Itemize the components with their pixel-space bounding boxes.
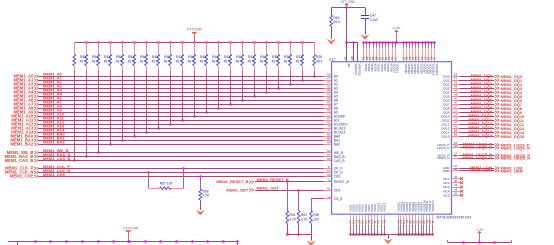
svg-text:49.9: 49.9 [248,59,255,63]
svg-text:CKE: CKE [334,175,342,179]
svg-text:UDM: UDM [442,169,449,173]
resistor R59 100 (CS_B pulldown) [310,199,320,235]
svg-text:4.7K: 4.7K [301,217,309,221]
wire net MEM1_UDM [452,167,523,174]
svg-text:MEM1_ODT: MEM1_ODT [257,185,280,190]
svg-text:MEM1_UDM: MEM1_UDM [470,168,492,173]
svg-text:E3: E3 [327,149,331,153]
svg-text:49.9: 49.9 [224,59,231,63]
svg-text:C3: C3 [454,108,458,112]
wire net MEM1_DQ14 [452,128,526,135]
wire net MEM1_A6 [14,96,332,103]
svg-text:VTT_GND: VTT_GND [341,0,357,4]
resistor R46 49.9 termination column [188,41,196,118]
resistor R37 49.9 termination column [296,41,304,82]
svg-text:49.9: 49.9 [140,59,147,63]
svg-text:E3: E3 [454,72,458,76]
wire net MEM1_DQ2 [452,80,523,87]
svg-text:BA2: BA2 [334,143,340,147]
svg-text:A7: A7 [454,120,458,124]
svg-text:0.1uF: 0.1uF [370,18,378,22]
svg-text:B7: B7 [454,154,458,158]
svg-text:MEM1_UDM: MEM1_UDM [501,169,523,174]
svg-text:VSS12: VSS12 [383,202,387,212]
wire net MEM1_DQ7 [452,100,523,107]
svg-text:49.9: 49.9 [284,59,291,63]
resistor R52 49.9 termination column [116,41,124,142]
wire net MEM1_DQ15 [452,132,526,139]
resistor R38 49.9 termination column [284,41,292,86]
ground (below R63) [327,39,336,45]
svg-text:B2: B2 [454,132,458,136]
wire NC pin 3 (no connect) [452,183,464,188]
wire NC pin 4 (no connect) [452,187,464,192]
wire net MEM1_A13 [11,124,331,131]
wire net MEM1_A10 [11,112,331,119]
svg-text:49.9: 49.9 [152,59,159,63]
wire +1.5V bus (bottom right) [448,240,512,244]
svg-text:U17: U17 [329,57,336,61]
svg-text:R59: R59 [313,213,319,217]
resistor R56 49.9 termination column [73,42,76,162]
wire net MEM1_A0 [14,72,332,79]
svg-text:H7: H7 [454,100,458,104]
resistor R36 49.9 termination column [313,42,323,78]
resistor R67 100 (CLK_P-CLK_N termination) [147,167,185,189]
svg-text:N1: N1 [393,56,397,60]
wire net MEM1_CLK_N [5,168,332,175]
svg-text:49.9: 49.9 [176,59,183,63]
svg-text:D3: D3 [454,167,458,171]
svg-text:N8: N8 [327,141,331,145]
wire net MEM1_A4 [14,88,332,95]
wire net MEM1_A11 [11,116,331,123]
ground (VSS bus) [384,235,393,244]
wire net MEM1_BA0 [10,132,331,139]
svg-text:VTTCOR: VTTCOR [123,226,138,230]
wire net MEM1_DQ5 [452,92,523,99]
wire net MEM1_DQ11 [452,116,525,123]
svg-text:G3: G3 [454,144,458,148]
svg-text:49.9: 49.9 [236,59,243,63]
resistor R44 49.9 termination column [212,41,220,110]
svg-text:R67 100: R67 100 [160,181,173,185]
IC U17 bottom pin numbers [348,219,435,223]
resistor R55 49.9 termination column [80,41,88,158]
capacitor C47 0.1uF [361,8,378,35]
wire net MEM1_DQ9 [452,108,523,115]
IC U17 top pin numbers [343,56,437,60]
svg-text:K3: K3 [454,183,458,187]
wire net MEM1_DQ13 [452,124,526,130]
power symbol +1.5V (bottom right) [475,227,484,242]
svg-text:K9: K9 [327,173,331,177]
svg-text:49.9: 49.9 [92,59,99,63]
resistor R49 49.9 termination column [152,41,160,130]
svg-text:P3: P3 [327,81,331,85]
svg-text:T2: T2 [327,178,331,182]
svg-text:N3: N3 [327,73,331,77]
power symbol VTTCOR (bottom) [123,226,138,242]
wire net MEM1_RESET_B [216,177,331,184]
wire net MEM1_RAS_B [5,152,332,159]
svg-text:49.9: 49.9 [272,59,279,63]
wire net MEM1_UDQS_P [452,151,531,158]
svg-text:M8: M8 [327,137,331,141]
wire net MEM1_DQ4 [452,88,523,95]
resistor R51 49.9 termination column [128,41,136,138]
resistor R45 49.9 termination column [200,41,208,114]
wire net MEM1_DQ10 [452,112,525,119]
svg-text:49.9: 49.9 [104,59,111,63]
svg-text:MT41J64M16TW-093: MT41J64M16TW-093 [437,215,472,219]
wire VSS bus (bottom) [350,234,433,236]
wire net MEM1_A8 [14,104,332,111]
svg-text:49.9: 49.9 [260,59,267,63]
svg-text:VDDQ11: VDDQ11 [435,64,439,76]
svg-text:A2: A2 [454,124,458,128]
resistor R41 49.9 termination column [248,41,256,98]
memory IC U17 body [332,62,452,215]
svg-text:49.9: 49.9 [333,20,340,24]
svg-text:R61: R61 [289,213,295,217]
wire VDD rail (top) [364,41,435,44]
svg-text:T3: T3 [327,125,331,129]
ground (pulldowns) [307,241,316,245]
svg-text:J3: J3 [454,175,457,179]
wire net MEM1_A12 [11,120,331,127]
svg-text:MEM1_UDQS_N: MEM1_UDQS_N [501,156,531,161]
wire net MEM1_CS_B [311,198,332,200]
svg-text:D3: D3 [327,157,331,161]
svg-text:R2: R2 [327,101,331,105]
wire net MEM1_DQ0 [452,72,523,79]
svg-text:NC5: NC5 [443,193,449,197]
svg-text:49.9: 49.9 [200,59,207,63]
svg-text:49.9: 49.9 [128,59,135,63]
wire VTTCOR bus (bottom) [8,240,239,245]
IC U17 top pin names [347,64,439,77]
svg-text:P7: P7 [327,77,331,81]
wire net MEM1_DQ6 [452,96,523,103]
wire pulldown common [286,233,311,240]
svg-text:T7: T7 [327,129,331,133]
svg-text:MEM1_LDQS_N: MEM1_LDQS_N [501,145,530,150]
svg-text:4.7K: 4.7K [203,194,211,198]
svg-text:C2: C2 [454,116,458,120]
svg-text:CS_B: CS_B [334,197,343,201]
wire NC pin 5 (no connect) [452,191,464,196]
svg-text:L7: L7 [328,113,331,117]
wire net MEM1_DQ12 [452,120,526,127]
svg-text:MEM1_BA2: MEM1_BA2 [10,142,33,147]
wire VTT termination rail [74,42,314,44]
svg-text:R8: R8 [327,97,331,101]
svg-text:MEM1_CKE: MEM1_CKE [10,174,33,179]
svg-text:B8: B8 [454,128,458,132]
svg-text:+1.5V: +1.5V [475,227,484,231]
IC U17 bottom pin names [348,200,435,212]
svg-text:MEM1_CAS_B: MEM1_CAS_B [5,158,34,163]
wire net MEM1_A2 [14,80,332,87]
svg-text:R62: R62 [301,213,307,217]
svg-text:49.9: 49.9 [316,59,323,63]
wire VTT_GND net [331,6,365,9]
svg-text:MEM1_UDQS_N: MEM1_UDQS_N [462,155,492,160]
svg-text:T8: T8 [327,105,331,109]
svg-text:G2: G2 [454,96,458,100]
wire net MEM1_LDM [452,164,523,171]
resistor R47 49.9 termination column [176,41,184,122]
svg-text:C8: C8 [454,112,458,116]
IC part number MT41J64M16TW-093 [437,215,472,219]
wire net MEM1_DQ3 [452,84,523,91]
svg-text:N7: N7 [327,121,331,125]
svg-text:49.9: 49.9 [188,59,195,63]
IC U17 left pin numbers [327,73,331,199]
resistor R58 4.7K (CKE pulldown) [199,175,210,210]
svg-text:F7: F7 [327,153,331,157]
resistor R42 49.9 termination column [236,41,244,102]
resistor R63 49.9 (VTT sense) [330,8,340,39]
power symbol VTT_GND [341,0,357,8]
wire NC pin 2 (no connect) [452,179,464,184]
svg-text:H3: H3 [454,88,458,92]
wire net MEM1_A9 [14,108,332,115]
wire net MEM1_CAS_B [5,156,332,163]
svg-text:M4: M4 [382,219,386,223]
IC U17 right pin names [437,74,450,197]
wire net MEM1_A1 [14,76,332,83]
wire VDD pin drops group A [362,41,397,61]
svg-text:VSSQ13: VSSQ13 [431,200,435,212]
svg-text:49.9: 49.9 [296,59,303,63]
resistor R39 49.9 termination column [272,41,280,90]
svg-text:MEM1_DQ15: MEM1_DQ15 [501,134,525,139]
power symbol VTTCOR (top) [187,28,202,42]
svg-text:MEM1_ODT: MEM1_ODT [226,187,249,192]
svg-text:K1: K1 [327,186,331,190]
wire VSS pin drops [349,214,434,236]
svg-text:J8: J8 [454,179,457,183]
svg-text:R7: R7 [327,117,331,121]
resistor R53 49.9 termination column [104,41,112,146]
svg-text:4.7K: 4.7K [289,217,297,221]
svg-text:VDD11: VDD11 [396,64,400,74]
svg-text:P8: P8 [327,89,331,93]
svg-text:DQ15: DQ15 [441,134,449,138]
svg-text:UDQS_N: UDQS_N [437,156,450,160]
resistor R43 49.9 termination column [224,41,232,106]
wire net MEM1_UDQS_N [452,154,531,161]
svg-text:CAS_B: CAS_B [334,159,346,163]
svg-text:M8: M8 [350,56,354,60]
wire net MEM1_BA2 [10,140,331,147]
svg-text:VREFDQ: VREFDQ [357,64,361,77]
svg-text:M2: M2 [327,133,331,137]
wire VREF mini rail [345,41,357,61]
svg-text:RESET_B: RESET_B [334,180,350,184]
svg-text:LDQS_N: LDQS_N [437,146,449,150]
wire net MEM1_ODT [226,185,331,192]
wire NC pin 1 (no connect) [452,175,464,180]
IC U17 left pin names [334,75,350,201]
resistor R54 49.9 termination column [92,41,100,154]
wire net MEM1_CKE [10,172,332,179]
svg-text:H8: H8 [454,92,458,96]
wire net MEM1_DQ8 [452,104,523,111]
ground (below C47) [361,34,370,40]
svg-text:L2: L2 [328,195,331,199]
svg-text:49.9: 49.9 [164,59,171,63]
IC U17 reference designator [329,57,336,61]
svg-text:MEM1_LDQS_N: MEM1_LDQS_N [463,145,492,150]
svg-text:K7: K7 [327,169,331,173]
resistor R48 49.9 termination column [164,41,172,126]
svg-text:D7: D7 [454,104,458,108]
resistor R50 49.9 termination column [140,41,148,134]
svg-text:49.9: 49.9 [116,59,123,63]
resistor R61 4.7K (RESET_B pulldown) [286,180,297,235]
svg-text:F8: F8 [454,84,458,88]
svg-text:100: 100 [313,217,319,221]
svg-text:MEM1_BA2: MEM1_BA2 [43,140,66,145]
wire net MEM1_DQ1 [452,76,523,83]
wire VDD pin drops group B [402,41,436,61]
svg-text:MEM1_RESET_B: MEM1_RESET_B [216,179,248,184]
wire net MEM1_BA1 [10,136,331,143]
wire net MEM1_A14 [11,128,331,135]
svg-text:MEM1_DQ15: MEM1_DQ15 [468,133,492,138]
svg-text:VTTCOR: VTTCOR [187,28,202,32]
resistor R40 49.9 termination column [260,41,268,94]
wire VREF pin drop [346,8,348,62]
svg-text:B3: B3 [454,191,458,195]
wire net MEM1_A7 [14,100,332,107]
wire net MEM1_A3 [14,84,332,91]
svg-text:F2: F2 [454,80,458,84]
wire net MEM1_LDQS_N [452,144,530,151]
svg-text:A3: A3 [454,187,458,191]
power symbol +1.5V (top) [392,26,401,42]
wire net MEM1_WE_B [7,148,332,155]
svg-text:P2: P2 [327,93,331,97]
svg-text:49.9: 49.9 [80,59,87,63]
svg-text:F7: F7 [454,76,458,80]
svg-text:ODT: ODT [334,188,341,192]
svg-text:49.9: 49.9 [212,59,219,63]
svg-text:+1.5V: +1.5V [392,26,401,30]
svg-text:VREFCA: VREFCA [354,64,358,76]
svg-text:N2: N2 [327,85,331,89]
resistor R62 4.7K (ODT pulldown) [297,189,308,235]
svg-text:R3: R3 [327,109,331,113]
wire net MEM1_CLK_P [5,164,331,171]
wire net MEM1_LDQS_P [452,141,530,148]
ground (below R58) [196,210,205,216]
svg-text:J7: J7 [328,165,331,169]
wire net MEM1_A5 [14,92,332,99]
